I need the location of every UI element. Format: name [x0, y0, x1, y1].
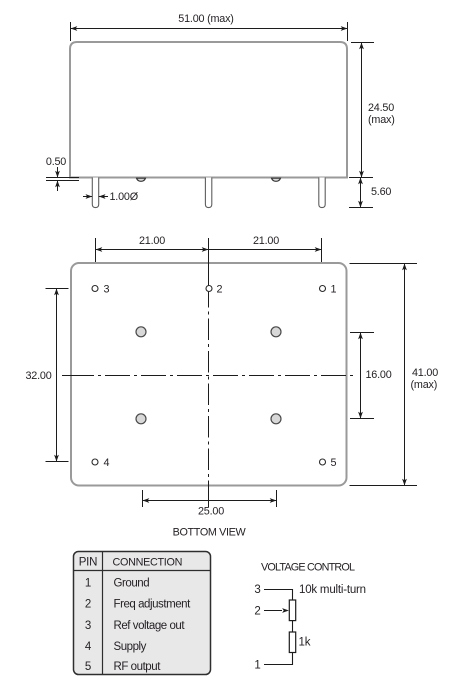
bottom view pin 2 circle: [206, 286, 212, 292]
svg-text:VOLTAGE CONTROL: VOLTAGE CONTROL: [261, 562, 355, 574]
svg-text:1.00Ø: 1.00Ø: [110, 191, 139, 203]
dimension 1.00 dia arrows: [83, 196, 92, 198]
bottom view pin 5 circle: [320, 459, 326, 465]
dimension 16.00 line with arrows: [360, 333, 362, 419]
bottom view: package body outline: [71, 263, 347, 486]
dimension 0.50 arrows: [57, 167, 59, 178]
svg-text:1: 1: [331, 284, 337, 296]
bottom view pin 3 circle: [92, 286, 98, 292]
svg-text:PIN: PIN: [79, 557, 98, 569]
bottom view standoff post top-left: [136, 327, 146, 337]
dimension 51.00 max line with arrows: [71, 28, 348, 30]
svg-text:4: 4: [104, 457, 110, 469]
dimension 24.50 max top extension line: [351, 42, 374, 44]
bottom view standoff post top-right: [271, 327, 281, 337]
side view standoff bump right: [272, 178, 281, 181]
svg-text:Freq adjustment: Freq adjustment: [114, 599, 192, 611]
table column divider: [102, 552, 104, 675]
wiper arrow wire from pin 2: [264, 610, 282, 612]
dimension 25.00 extension lines: [142, 490, 144, 507]
bottom view horizontal centerline: [62, 375, 94, 377]
svg-text:(max): (max): [411, 379, 438, 391]
side view: oscillator body outline: [70, 42, 347, 178]
pin connection table background: [74, 552, 211, 675]
svg-text:25.00: 25.00: [198, 506, 224, 518]
potentiometer R1 10k multi-turn body: [289, 600, 295, 621]
dimension 0.50 reference lines: [46, 177, 79, 179]
dimension 41.00 max line with arrows: [404, 264, 406, 486]
svg-text:32.00: 32.00: [25, 370, 51, 382]
svg-text:51.00 (max): 51.00 (max): [178, 13, 233, 25]
dimension 51.00 max extension lines: [70, 22, 72, 41]
svg-text:41.00: 41.00: [412, 367, 438, 379]
svg-text:21.00: 21.00: [139, 235, 165, 247]
svg-text:Ground: Ground: [114, 578, 150, 590]
wire resistor to pin 1: [264, 653, 293, 665]
side view standoff bump left: [137, 178, 146, 181]
bottom view pin 1 circle: [320, 286, 326, 292]
svg-text:2: 2: [85, 599, 91, 611]
svg-text:Supply: Supply: [114, 641, 147, 653]
dimension 32.00 extension lines: [46, 288, 69, 290]
dimension 21.00 left extension lines: [95, 238, 97, 262]
wire pot to resistor: [292, 621, 294, 632]
svg-text:1: 1: [85, 578, 91, 590]
dimension 16.00 extension lines: [350, 332, 374, 334]
side view pin left: [92, 178, 98, 208]
svg-text:5: 5: [331, 457, 337, 469]
svg-text:16.00: 16.00: [366, 369, 392, 381]
svg-text:1k: 1k: [299, 637, 311, 649]
bottom view vertical centerline: [208, 238, 210, 308]
bottom view standoff post bottom-right: [271, 414, 281, 424]
side view pin middle: [205, 178, 211, 208]
dimension 21.00 right line with arrows: [209, 249, 322, 251]
svg-text:1: 1: [254, 660, 260, 672]
svg-text:BOTTOM VIEW: BOTTOM VIEW: [173, 527, 247, 539]
svg-text:(max): (max): [368, 114, 395, 126]
table header divider: [74, 570, 211, 572]
bottom view pin 4 circle: [92, 459, 98, 465]
svg-text:3: 3: [254, 584, 260, 596]
svg-text:2: 2: [217, 284, 223, 296]
svg-text:2: 2: [254, 605, 260, 617]
svg-text:5.60: 5.60: [371, 186, 391, 198]
svg-text:3: 3: [85, 620, 91, 632]
svg-text:CONNECTION: CONNECTION: [113, 557, 183, 569]
svg-text:Ref voltage out: Ref voltage out: [114, 620, 186, 632]
dimension 5.60 extension lines: [349, 177, 373, 179]
svg-text:3: 3: [104, 284, 110, 296]
svg-text:24.50: 24.50: [368, 102, 394, 114]
side view pin right: [319, 178, 325, 208]
wire from pin 3: [264, 590, 293, 601]
svg-text:4: 4: [85, 641, 92, 653]
svg-text:10k multi-turn: 10k multi-turn: [299, 584, 366, 596]
dimension 21.00 left line with arrows: [96, 249, 209, 251]
svg-text:21.00: 21.00: [253, 235, 279, 247]
bottom view standoff post bottom-left: [136, 414, 146, 424]
dimension 41.00 max extension lines: [350, 263, 418, 265]
resistor R2 1k body: [289, 632, 295, 653]
svg-text:0.50: 0.50: [46, 156, 66, 168]
dimension 32.00 line with arrows: [56, 289, 58, 462]
dimension 5.60 line with arrows: [360, 178, 362, 208]
svg-text:5: 5: [85, 661, 91, 673]
dimension 24.50 max line with arrows: [361, 43, 363, 178]
svg-text:RF output: RF output: [114, 661, 162, 673]
dimension 25.00 line with arrows: [143, 500, 277, 502]
